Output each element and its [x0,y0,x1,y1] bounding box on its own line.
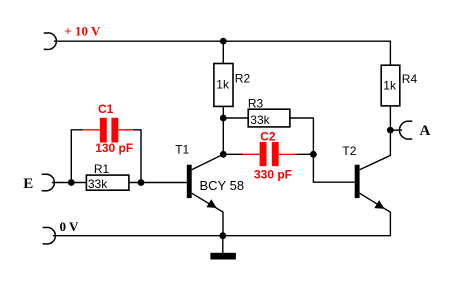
svg-text:33k: 33k [250,113,270,127]
svg-text:C1: C1 [98,102,114,116]
svg-text:0 V: 0 V [60,219,80,234]
svg-text:T1: T1 [175,143,189,157]
svg-text:A: A [420,123,431,139]
svg-text:R3: R3 [248,96,264,110]
svg-text:330 pF: 330 pF [254,168,292,182]
svg-text:+ 10 V: + 10 V [64,23,101,38]
svg-text:130 pF: 130 pF [95,141,133,155]
svg-text:33k: 33k [88,177,108,191]
svg-text:R1: R1 [94,162,110,176]
svg-text:E: E [23,176,33,192]
svg-text:R4: R4 [402,72,418,86]
svg-text:C2: C2 [260,130,276,144]
svg-text:1k: 1k [383,79,397,93]
svg-text:T2: T2 [342,144,356,158]
svg-text:R2: R2 [235,71,251,85]
svg-text:1k: 1k [216,77,230,91]
svg-text:BCY 58: BCY 58 [200,178,245,193]
